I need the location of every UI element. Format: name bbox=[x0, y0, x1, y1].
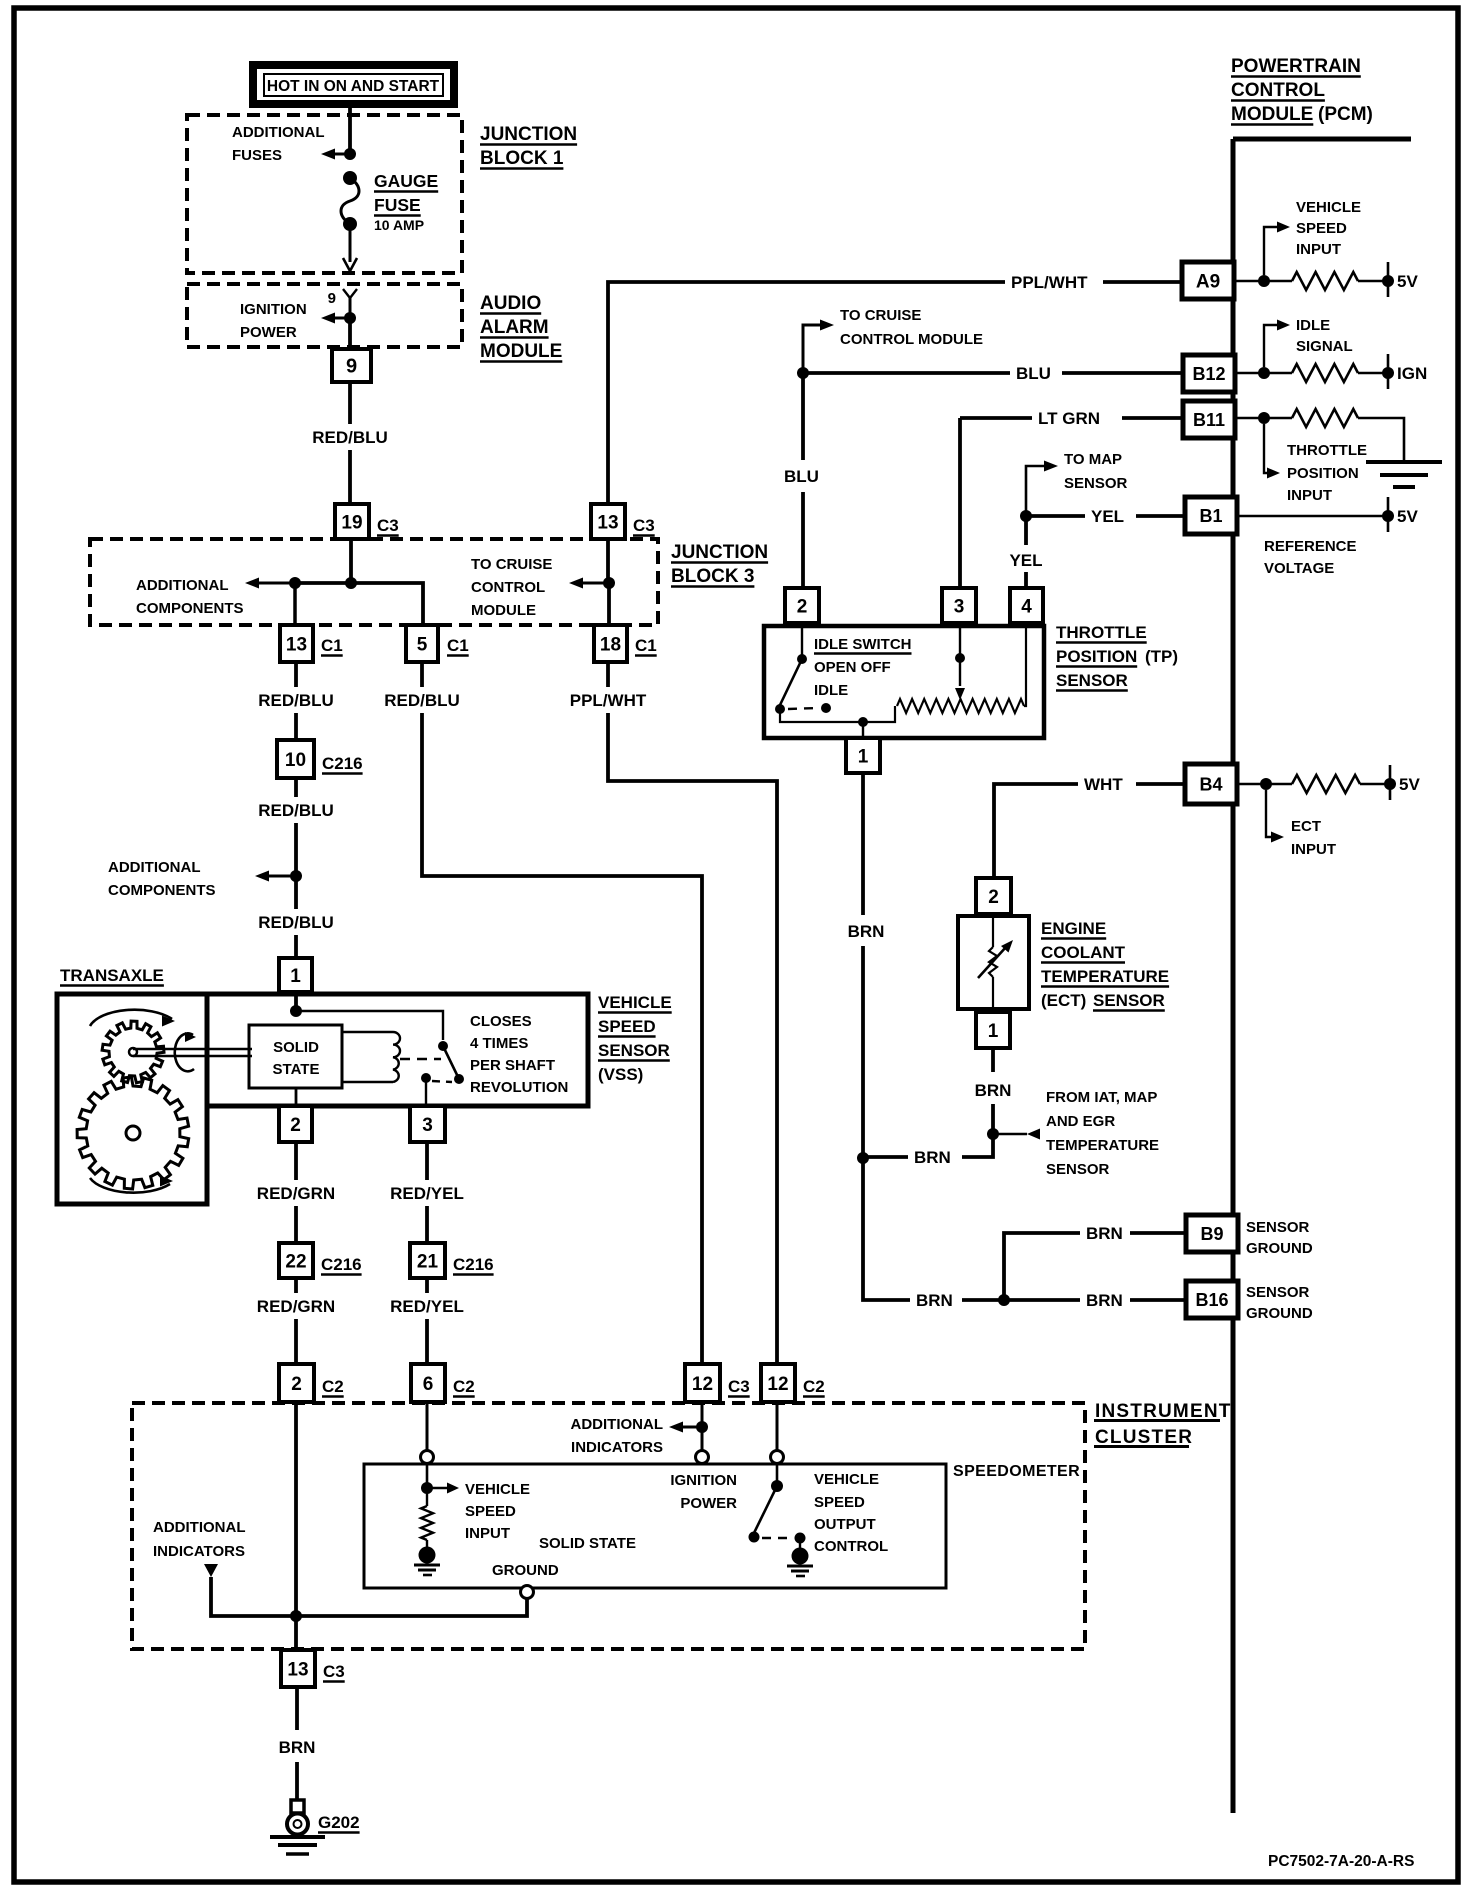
idle switch label bbox=[814, 636, 912, 699]
node brn b16 bbox=[998, 1294, 1010, 1306]
ground return wire bbox=[211, 1577, 527, 1616]
svg-text:BRN: BRN bbox=[848, 922, 885, 941]
throttle position sensor label bbox=[1056, 623, 1178, 691]
svg-text:(PCM): (PCM) bbox=[1318, 104, 1373, 125]
wire bbox=[295, 1687, 299, 1800]
svg-text:COMPONENTS: COMPONENTS bbox=[108, 882, 216, 899]
svg-text:POWER: POWER bbox=[240, 324, 297, 341]
svg-text:ADDITIONAL: ADDITIONAL bbox=[136, 577, 229, 594]
node 12c3 bbox=[696, 1421, 708, 1433]
wire bbox=[295, 1088, 298, 1106]
wire bbox=[348, 318, 352, 349]
svg-text:TEMPERATURE: TEMPERATURE bbox=[1046, 1137, 1159, 1154]
node b11 bbox=[1235, 412, 1292, 424]
svg-text:INDICATORS: INDICATORS bbox=[571, 1439, 663, 1456]
wire BRN to B9 bbox=[1004, 1233, 1186, 1300]
wire bbox=[421, 1402, 434, 1464]
solid state label bbox=[539, 1535, 636, 1552]
connector 6 C2 bbox=[411, 1364, 475, 1402]
wire bbox=[294, 1278, 298, 1364]
svg-text:5V: 5V bbox=[1399, 775, 1420, 794]
wire bbox=[294, 662, 298, 740]
wire RED/BLU from 5 C1 to instrument cluster bbox=[422, 662, 702, 1364]
IGN terminal bbox=[1358, 354, 1427, 389]
wire bbox=[294, 992, 298, 1011]
svg-text:ADDITIONAL: ADDITIONAL bbox=[153, 1519, 246, 1536]
sensor ground label B9 bbox=[1246, 1219, 1313, 1257]
drawing number bbox=[1268, 1853, 1414, 1870]
connector 13 C3 bbox=[591, 504, 655, 539]
wire to ground bbox=[1358, 418, 1404, 462]
wire label BRN bbox=[1086, 1224, 1123, 1243]
svg-text:SENSOR: SENSOR bbox=[1056, 671, 1128, 690]
svg-text:C1: C1 bbox=[447, 636, 469, 655]
arrow vehicle speed input bbox=[427, 1483, 459, 1494]
connector 10 C216 bbox=[277, 740, 363, 778]
shaft bbox=[133, 1049, 252, 1056]
vehicle speed output control label bbox=[814, 1471, 888, 1555]
svg-text:2: 2 bbox=[797, 596, 808, 617]
svg-text:FUSE: FUSE bbox=[374, 195, 421, 215]
connector B12 bbox=[1183, 355, 1235, 392]
node ignition power bbox=[344, 312, 356, 324]
svg-text:BLU: BLU bbox=[784, 467, 819, 486]
wire PPL/WHT up to A9 bbox=[608, 282, 1182, 504]
resistor R-B12 bbox=[1292, 364, 1358, 382]
svg-text:TEMPERATURE: TEMPERATURE bbox=[1041, 967, 1169, 986]
node vsi bbox=[421, 1482, 433, 1494]
svg-text:ECT: ECT bbox=[1291, 818, 1321, 835]
node red/blu split bbox=[290, 870, 302, 882]
svg-text:GROUND: GROUND bbox=[492, 1562, 559, 1579]
svg-text:POWERTRAIN: POWERTRAIN bbox=[1231, 56, 1361, 77]
rotation arc top bbox=[90, 1010, 175, 1027]
instrument cluster label bbox=[1094, 1401, 1232, 1448]
wire bbox=[294, 778, 298, 958]
connector 12 C3 bbox=[685, 1364, 750, 1402]
svg-text:3: 3 bbox=[954, 596, 965, 617]
resistor R-A9 bbox=[1292, 272, 1358, 290]
svg-text:WHT: WHT bbox=[1084, 775, 1123, 794]
wire bbox=[425, 1142, 429, 1243]
svg-text:C2: C2 bbox=[803, 1377, 825, 1396]
svg-text:ADDITIONAL: ADDITIONAL bbox=[108, 859, 201, 876]
connector pin 4 TP bbox=[1010, 588, 1043, 623]
svg-text:GROUND: GROUND bbox=[1246, 1240, 1313, 1257]
wire BRN from TP pin1 bbox=[861, 773, 865, 1158]
wire label RED/GRN bbox=[257, 1297, 335, 1316]
throttle position input arrow bbox=[1264, 424, 1280, 479]
svg-text:2: 2 bbox=[290, 1115, 301, 1136]
svg-text:22: 22 bbox=[285, 1251, 306, 1272]
wire to switch bbox=[296, 1011, 443, 1040]
svg-text:13: 13 bbox=[597, 512, 618, 533]
wire label PPL/WHT bbox=[1011, 273, 1088, 292]
wire label RED/BLU bbox=[258, 801, 334, 820]
wire bbox=[696, 1402, 709, 1464]
closes 4 times label bbox=[470, 1013, 568, 1096]
connector pin 2 ECT bbox=[976, 878, 1011, 914]
wire LT GRN down to pin 3 bbox=[958, 418, 962, 588]
svg-text:PER SHAFT: PER SHAFT bbox=[470, 1057, 555, 1074]
connector 21 C216 bbox=[410, 1243, 494, 1278]
svg-text:BRN: BRN bbox=[279, 1738, 316, 1757]
connector pin 1 ECT bbox=[976, 1012, 1010, 1048]
svg-text:VEHICLE: VEHICLE bbox=[465, 1481, 530, 1498]
transaxle box bbox=[57, 994, 207, 1204]
svg-text:INDICATORS: INDICATORS bbox=[153, 1543, 245, 1560]
wire WHT to B4 bbox=[994, 784, 1185, 878]
ignition power label bbox=[670, 1472, 737, 1512]
ect thermistor symbol bbox=[978, 916, 1013, 1009]
connector pin 3 TP bbox=[942, 588, 976, 623]
ground ball speedo output bbox=[787, 1538, 813, 1576]
svg-text:CONTROL: CONTROL bbox=[471, 579, 545, 596]
svg-text:C216: C216 bbox=[322, 754, 363, 773]
vehicle speed input arrow bbox=[1264, 222, 1290, 276]
wire fuse to module with arrow bbox=[343, 224, 357, 271]
throttle position input label bbox=[1287, 442, 1367, 504]
svg-text:COOLANT: COOLANT bbox=[1041, 943, 1126, 962]
svg-text:INPUT: INPUT bbox=[1291, 841, 1336, 858]
wire bbox=[426, 1464, 429, 1488]
svg-text:SENSOR: SENSOR bbox=[1046, 1161, 1110, 1178]
svg-text:IDLE SWITCH: IDLE SWITCH bbox=[814, 636, 912, 653]
connector 18 C1 bbox=[594, 625, 657, 662]
wire bbox=[348, 104, 352, 154]
svg-text:SPEED: SPEED bbox=[1296, 220, 1347, 237]
to map sensor arrow bbox=[1026, 461, 1058, 517]
svg-text:SPEED: SPEED bbox=[814, 1494, 865, 1511]
svg-text:C2: C2 bbox=[453, 1377, 475, 1396]
wire label RED/YEL bbox=[390, 1184, 464, 1203]
node jb3 b bbox=[345, 577, 357, 589]
node ect brn bbox=[987, 1128, 999, 1140]
ground symbol pcm bbox=[1366, 462, 1442, 487]
svg-text:FUSES: FUSES bbox=[232, 147, 282, 164]
svg-text:REFERENCE: REFERENCE bbox=[1264, 538, 1357, 555]
svg-text:RED/BLU: RED/BLU bbox=[258, 691, 334, 710]
gauge fuse label bbox=[374, 171, 438, 233]
node vso bbox=[771, 1480, 783, 1492]
to cruise control module label (top) bbox=[840, 307, 983, 348]
from iat arrow bbox=[993, 1129, 1040, 1140]
svg-text:SENSOR: SENSOR bbox=[1064, 475, 1128, 492]
svg-text:1: 1 bbox=[290, 966, 301, 987]
svg-text:RED/BLU: RED/BLU bbox=[258, 801, 334, 820]
svg-text:IGN: IGN bbox=[1397, 364, 1427, 383]
wire bbox=[293, 583, 297, 625]
node yel bbox=[1020, 510, 1032, 522]
svg-text:RED/BLU: RED/BLU bbox=[312, 428, 388, 447]
pcm top edge bbox=[1233, 137, 1411, 142]
5V terminal B4 bbox=[1360, 765, 1420, 800]
svg-text:10: 10 bbox=[285, 750, 306, 771]
wire bbox=[607, 583, 611, 625]
svg-text:RED/GRN: RED/GRN bbox=[257, 1184, 335, 1203]
svg-text:CONTROL: CONTROL bbox=[1231, 80, 1325, 101]
wire label BRN bbox=[916, 1291, 953, 1310]
svg-text:SIGNAL: SIGNAL bbox=[1296, 338, 1353, 355]
svg-text:C1: C1 bbox=[321, 636, 343, 655]
ground G202 label bbox=[318, 1813, 360, 1833]
pcm left edge bbox=[1231, 139, 1236, 1813]
wire bbox=[425, 1278, 429, 1364]
svg-text:B9: B9 bbox=[1200, 1224, 1223, 1244]
svg-text:JUNCTION: JUNCTION bbox=[480, 124, 577, 145]
svg-text:B11: B11 bbox=[1193, 410, 1225, 430]
svg-text:IDLE: IDLE bbox=[1296, 317, 1330, 334]
wire BRN joining bbox=[863, 1134, 993, 1157]
wire label BRN bbox=[848, 922, 885, 941]
svg-text:LT GRN: LT GRN bbox=[1038, 409, 1100, 428]
tp resistor bbox=[897, 699, 1024, 713]
svg-text:CONTROL: CONTROL bbox=[814, 1538, 888, 1555]
idle signal label bbox=[1296, 317, 1353, 355]
svg-text:3: 3 bbox=[422, 1115, 433, 1136]
svg-text:TO CRUISE: TO CRUISE bbox=[840, 307, 921, 324]
svg-text:BRN: BRN bbox=[1086, 1224, 1123, 1243]
ect input label bbox=[1291, 818, 1336, 858]
svg-text:2: 2 bbox=[291, 1374, 302, 1395]
svg-text:C3: C3 bbox=[633, 516, 655, 535]
svg-text:YEL: YEL bbox=[1009, 551, 1042, 570]
svg-text:21: 21 bbox=[417, 1251, 439, 1272]
svg-text:2: 2 bbox=[988, 887, 999, 908]
svg-text:BLU: BLU bbox=[1016, 364, 1051, 383]
arrow to additional components bbox=[245, 578, 295, 589]
jb3 rail wire bbox=[295, 583, 423, 625]
speedometer box bbox=[364, 1464, 946, 1588]
wire label LT GRN bbox=[1038, 409, 1100, 428]
instrument cluster dashed box bbox=[132, 1403, 1085, 1649]
junction block 1 dashed box bbox=[187, 115, 462, 273]
connector pin 1 TP bbox=[846, 738, 880, 773]
svg-text:5V: 5V bbox=[1397, 272, 1418, 291]
svg-text:SPEED: SPEED bbox=[598, 1017, 656, 1036]
wire LT GRN to B11 bbox=[960, 416, 1183, 420]
svg-text:12: 12 bbox=[767, 1374, 788, 1395]
svg-text:C216: C216 bbox=[453, 1255, 494, 1274]
svg-text:SENSOR: SENSOR bbox=[598, 1041, 670, 1060]
wire label WHT bbox=[1084, 775, 1123, 794]
vehicle speed sensor label bbox=[598, 993, 672, 1084]
svg-text:POSITION: POSITION bbox=[1056, 647, 1137, 666]
solid state box bbox=[249, 1025, 342, 1088]
connector 22 C216 bbox=[279, 1243, 362, 1278]
svg-text:MODULE: MODULE bbox=[1231, 104, 1313, 125]
connector B11 bbox=[1183, 401, 1235, 438]
svg-text:SENSOR: SENSOR bbox=[1246, 1219, 1310, 1236]
junction block 3 dashed box bbox=[90, 539, 658, 625]
node vss pin1 bbox=[290, 1005, 302, 1017]
svg-text:C3: C3 bbox=[728, 1377, 750, 1396]
svg-text:ADDITIONAL: ADDITIONAL bbox=[232, 124, 325, 141]
additional indicators label bbox=[571, 1416, 664, 1456]
svg-text:19: 19 bbox=[341, 512, 362, 533]
svg-text:INPUT: INPUT bbox=[465, 1525, 510, 1542]
svg-text:IDLE: IDLE bbox=[814, 682, 848, 699]
svg-text:VEHICLE: VEHICLE bbox=[814, 1471, 879, 1488]
ect sensor label bbox=[1041, 919, 1169, 1011]
connector B1 bbox=[1185, 497, 1237, 534]
svg-text:TO MAP: TO MAP bbox=[1064, 451, 1122, 468]
wire label RED/BLU bbox=[312, 428, 388, 447]
ground G202 bbox=[270, 1800, 325, 1854]
svg-text:B16: B16 bbox=[1195, 1290, 1228, 1310]
wire bbox=[349, 539, 353, 583]
svg-text:1: 1 bbox=[988, 1021, 999, 1042]
svg-text:FROM IAT, MAP: FROM IAT, MAP bbox=[1046, 1089, 1157, 1106]
audio alarm module dashed box bbox=[187, 284, 462, 347]
svg-text:9: 9 bbox=[346, 356, 357, 378]
audio alarm module label bbox=[480, 293, 562, 362]
svg-text:GAUGE: GAUGE bbox=[374, 171, 438, 191]
rotation arc bottom bbox=[90, 1176, 173, 1193]
wire label RED/BLU bbox=[258, 913, 334, 932]
tp bottom rail bbox=[780, 706, 895, 727]
svg-text:B12: B12 bbox=[1192, 364, 1225, 384]
connector pin 3 VSS bbox=[410, 1106, 445, 1142]
connector 19 C3 bbox=[335, 504, 399, 539]
connector B4 bbox=[1185, 764, 1237, 804]
arrow to additional indicators bbox=[669, 1422, 702, 1433]
vehicle speed input label (ic) bbox=[465, 1481, 530, 1542]
ignition power label bbox=[240, 301, 307, 341]
svg-text:BLOCK 1: BLOCK 1 bbox=[480, 148, 564, 169]
vss box bbox=[207, 994, 588, 1106]
svg-text:THROTTLE: THROTTLE bbox=[1287, 442, 1367, 459]
svg-text:ALARM: ALARM bbox=[480, 317, 549, 338]
ect sensor box bbox=[958, 916, 1029, 1009]
throttle position sensor box bbox=[764, 626, 1044, 738]
svg-text:AND EGR: AND EGR bbox=[1046, 1113, 1115, 1130]
svg-text:INPUT: INPUT bbox=[1296, 241, 1341, 258]
ect input arrow bbox=[1266, 790, 1284, 843]
svg-text:VOLTAGE: VOLTAGE bbox=[1264, 560, 1334, 577]
svg-text:RED/GRN: RED/GRN bbox=[257, 1297, 335, 1316]
to cruise control module arrow (top) bbox=[803, 320, 834, 374]
svg-text:TO CRUISE: TO CRUISE bbox=[471, 556, 552, 573]
wire label BLU bbox=[1016, 364, 1051, 383]
speed output switch bbox=[749, 1486, 806, 1544]
svg-text:REVOLUTION: REVOLUTION bbox=[470, 1079, 568, 1096]
resistor speedo bbox=[421, 1488, 433, 1540]
node jb3 a bbox=[289, 577, 301, 589]
wire label YEL bbox=[1009, 551, 1042, 570]
svg-text:4 TIMES: 4 TIMES bbox=[470, 1035, 528, 1052]
svg-text:BRN: BRN bbox=[914, 1148, 951, 1167]
svg-text:5V: 5V bbox=[1397, 507, 1418, 526]
svg-text:C2: C2 bbox=[322, 1377, 344, 1396]
tp idle switch bbox=[775, 654, 831, 714]
transaxle label bbox=[60, 966, 164, 986]
tp pin2 wire bbox=[801, 623, 803, 655]
wire bbox=[606, 539, 610, 583]
svg-text:THROTTLE: THROTTLE bbox=[1056, 623, 1147, 642]
tp wiper arrow bbox=[955, 623, 965, 700]
from iat label bbox=[1046, 1089, 1159, 1178]
transaxle lower gear bbox=[77, 1077, 189, 1189]
svg-text:4: 4 bbox=[1021, 596, 1032, 617]
wire label RED/GRN bbox=[257, 1184, 335, 1203]
wire bbox=[771, 1402, 784, 1464]
connector B9 bbox=[1186, 1215, 1238, 1252]
svg-text:IGNITION: IGNITION bbox=[240, 301, 307, 318]
connector 13 C3 (bottom) bbox=[281, 1650, 345, 1687]
resistor R-B4 bbox=[1292, 775, 1360, 793]
arrow to ignition power bbox=[321, 313, 350, 324]
svg-text:CLUSTER: CLUSTER bbox=[1095, 1427, 1193, 1448]
svg-text:OUTPUT: OUTPUT bbox=[814, 1516, 876, 1533]
svg-text:IGNITION: IGNITION bbox=[670, 1472, 737, 1489]
svg-text:CONTROL MODULE: CONTROL MODULE bbox=[840, 331, 983, 348]
svg-text:RED/YEL: RED/YEL bbox=[390, 1184, 464, 1203]
wire bbox=[294, 1402, 298, 1650]
svg-text:GROUND: GROUND bbox=[1246, 1305, 1313, 1322]
node jb3 c bbox=[603, 577, 615, 589]
power source box HOT IN ON AND START bbox=[253, 65, 454, 104]
connector 2 C2 bbox=[279, 1364, 344, 1402]
vss switch bbox=[421, 1041, 464, 1106]
svg-text:JUNCTION: JUNCTION bbox=[671, 542, 768, 563]
connector A9 bbox=[1182, 262, 1234, 299]
svg-text:RED/YEL: RED/YEL bbox=[390, 1297, 464, 1316]
connector pin 2 TP bbox=[785, 588, 819, 623]
svg-text:INSTRUMENT: INSTRUMENT bbox=[1095, 1401, 1232, 1422]
pin 9 socket symbol bbox=[328, 289, 357, 318]
svg-text:RED/BLU: RED/BLU bbox=[258, 913, 334, 932]
gauge fuse F1 10A bbox=[341, 171, 359, 231]
svg-text:18: 18 bbox=[600, 634, 621, 655]
node brn junction bbox=[857, 1152, 869, 1164]
svg-text:(TP): (TP) bbox=[1145, 647, 1178, 666]
additional indicators label 2 bbox=[153, 1519, 246, 1560]
svg-text:12: 12 bbox=[692, 1374, 713, 1395]
svg-text:VEHICLE: VEHICLE bbox=[1296, 199, 1361, 216]
svg-text:BLOCK 3: BLOCK 3 bbox=[671, 566, 754, 587]
additional components label 2 bbox=[108, 859, 216, 899]
svg-text:SENSOR: SENSOR bbox=[1246, 1284, 1310, 1301]
svg-text:AUDIO: AUDIO bbox=[480, 293, 541, 314]
sensor ground label B16 bbox=[1246, 1284, 1313, 1322]
svg-text:9: 9 bbox=[328, 290, 336, 307]
wire BRN to B16 bbox=[863, 1158, 1186, 1300]
connector B16 bbox=[1186, 1281, 1238, 1318]
vss coil bbox=[342, 1032, 400, 1082]
wire label YEL bbox=[1091, 507, 1124, 526]
wire YEL down to pin 4 bbox=[1024, 516, 1028, 588]
node fuse top bbox=[344, 148, 356, 160]
5V terminal A9 bbox=[1358, 262, 1418, 297]
connector pin 9 bbox=[332, 349, 371, 382]
svg-text:B4: B4 bbox=[1199, 774, 1222, 794]
5V terminal B1 bbox=[1237, 497, 1418, 532]
node ground return bbox=[290, 1610, 302, 1622]
svg-text:TRANSAXLE: TRANSAXLE bbox=[60, 966, 164, 985]
svg-text:BRN: BRN bbox=[916, 1291, 953, 1310]
svg-text:5: 5 bbox=[417, 634, 428, 655]
idle signal arrow bbox=[1264, 320, 1290, 368]
dashed actuate link bbox=[400, 1058, 441, 1060]
svg-text:STATE: STATE bbox=[273, 1061, 320, 1078]
arrow to additional fuses bbox=[321, 149, 350, 160]
svg-text:COMPONENTS: COMPONENTS bbox=[136, 600, 244, 617]
additional components label bbox=[136, 577, 244, 617]
speedometer label bbox=[953, 1463, 1080, 1480]
svg-text:PC7502-7A-20-A-RS: PC7502-7A-20-A-RS bbox=[1268, 1853, 1414, 1870]
svg-text:6: 6 bbox=[423, 1374, 434, 1395]
